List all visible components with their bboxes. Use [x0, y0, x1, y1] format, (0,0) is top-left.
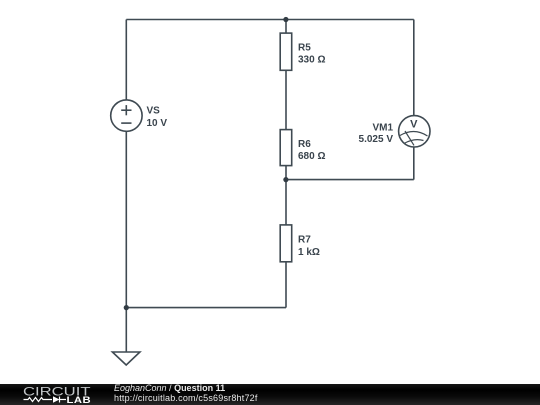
wire left rail lower	[125, 131, 127, 307]
svg-text:V: V	[410, 119, 418, 131]
node bottom junction	[124, 305, 129, 310]
CircuitLab logo	[0, 384, 100, 405]
svg-text:5.025 V: 5.025 V	[359, 134, 394, 145]
wire R7 top lead	[285, 180, 287, 225]
wire mid rail	[286, 179, 414, 181]
svg-text:VS: VS	[147, 106, 161, 117]
voltage source VS	[111, 100, 142, 131]
resistor R5	[280, 33, 292, 70]
svg-text:VM1: VM1	[372, 123, 393, 134]
label VM1 value	[359, 123, 394, 146]
label R7 value	[298, 235, 320, 259]
svg-text:330 Ω: 330 Ω	[298, 55, 325, 66]
svg-text:1 kΩ: 1 kΩ	[298, 247, 320, 258]
wire right rail lower	[413, 147, 415, 180]
resistor R7	[280, 225, 292, 262]
node top junction	[283, 17, 288, 22]
wire R5-R6 lead	[285, 70, 287, 129]
wire bottom rail	[126, 307, 286, 309]
wire R5 top lead	[285, 20, 287, 34]
voltmeter VM1	[399, 116, 430, 147]
footer title line	[114, 384, 225, 393]
svg-text:10 V: 10 V	[147, 118, 168, 129]
label VS value	[147, 106, 168, 130]
label R6 value	[298, 139, 325, 162]
svg-text:R5: R5	[298, 42, 311, 53]
wire ground lead	[125, 308, 127, 352]
svg-text:680 Ω: 680 Ω	[298, 151, 325, 162]
svg-text:LAB: LAB	[67, 396, 92, 405]
wire R6 bottom lead	[285, 166, 287, 180]
label R5 value	[298, 42, 325, 65]
wire right rail upper	[413, 20, 415, 116]
resistor R6	[280, 130, 292, 166]
wire left rail upper	[125, 20, 127, 101]
ground	[112, 352, 139, 365]
svg-text:R6: R6	[298, 139, 311, 150]
footer bar	[0, 384, 540, 405]
svg-text:R7: R7	[298, 235, 311, 246]
wire top rail	[126, 19, 414, 21]
wire R7 bottom lead	[285, 262, 287, 308]
footer url line	[114, 394, 258, 403]
node mid junction	[283, 177, 288, 182]
